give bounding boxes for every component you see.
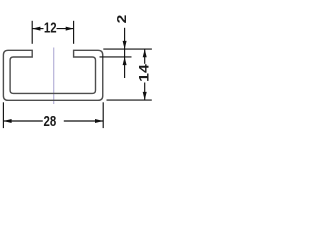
svg-text:14: 14	[137, 63, 152, 82]
svg-text:12: 12	[44, 19, 57, 36]
svg-text:28: 28	[44, 113, 57, 130]
svg-text:2: 2	[115, 15, 129, 24]
